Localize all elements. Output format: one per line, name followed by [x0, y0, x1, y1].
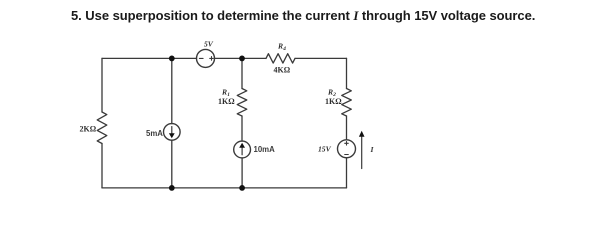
wire top rail left segment	[102, 57, 197, 59]
wire 5mA branch lower	[171, 140, 173, 188]
svg-text:5V: 5V	[204, 40, 214, 49]
title text	[71, 8, 535, 24]
wire top rail right segment	[295, 57, 347, 59]
wire right rail lower	[346, 158, 348, 188]
node dot top R1	[239, 56, 245, 62]
svg-text:15V: 15V	[318, 145, 332, 154]
wire top rail middle segment	[215, 57, 267, 59]
wire R2 to 15V	[346, 116, 348, 140]
node dot bottom 5mA	[169, 185, 175, 191]
node dot bottom 10mA	[239, 185, 245, 191]
svg-text:2KΩ: 2KΩ	[80, 125, 97, 134]
resistor R1	[237, 89, 247, 117]
resistor R4	[266, 54, 295, 63]
arrowhead 5mA	[169, 133, 175, 138]
resistor 2KΩ	[97, 112, 107, 144]
node dot top 5mA	[169, 56, 175, 62]
wire R1 to 10mA	[241, 116, 243, 141]
wire left rail upper	[101, 58, 103, 112]
wire R1 branch upper	[241, 58, 243, 88]
voltage source 5V	[197, 49, 215, 67]
arrowhead 10mA	[239, 143, 245, 148]
wire right rail upper	[346, 58, 348, 88]
svg-text:4KΩ: 4KΩ	[274, 66, 291, 75]
wire left rail lower	[101, 144, 103, 188]
wire bottom rail	[102, 187, 347, 189]
current source 10mA	[234, 141, 251, 158]
svg-text:R4: R4	[277, 42, 286, 53]
resistor R2	[342, 89, 352, 117]
arrowhead I	[359, 131, 365, 137]
svg-text:1KΩ: 1KΩ	[218, 97, 235, 106]
wire 10mA branch lower	[241, 158, 243, 188]
wire 5mA branch upper	[171, 58, 173, 123]
current arrow I	[361, 135, 363, 169]
svg-text:1KΩ: 1KΩ	[325, 97, 342, 106]
svg-text:I: I	[370, 145, 375, 154]
voltage source 15V	[338, 140, 356, 158]
svg-text:10mA: 10mA	[254, 145, 276, 154]
svg-text:5mA: 5mA	[146, 129, 163, 138]
current source 5mA	[164, 124, 181, 141]
